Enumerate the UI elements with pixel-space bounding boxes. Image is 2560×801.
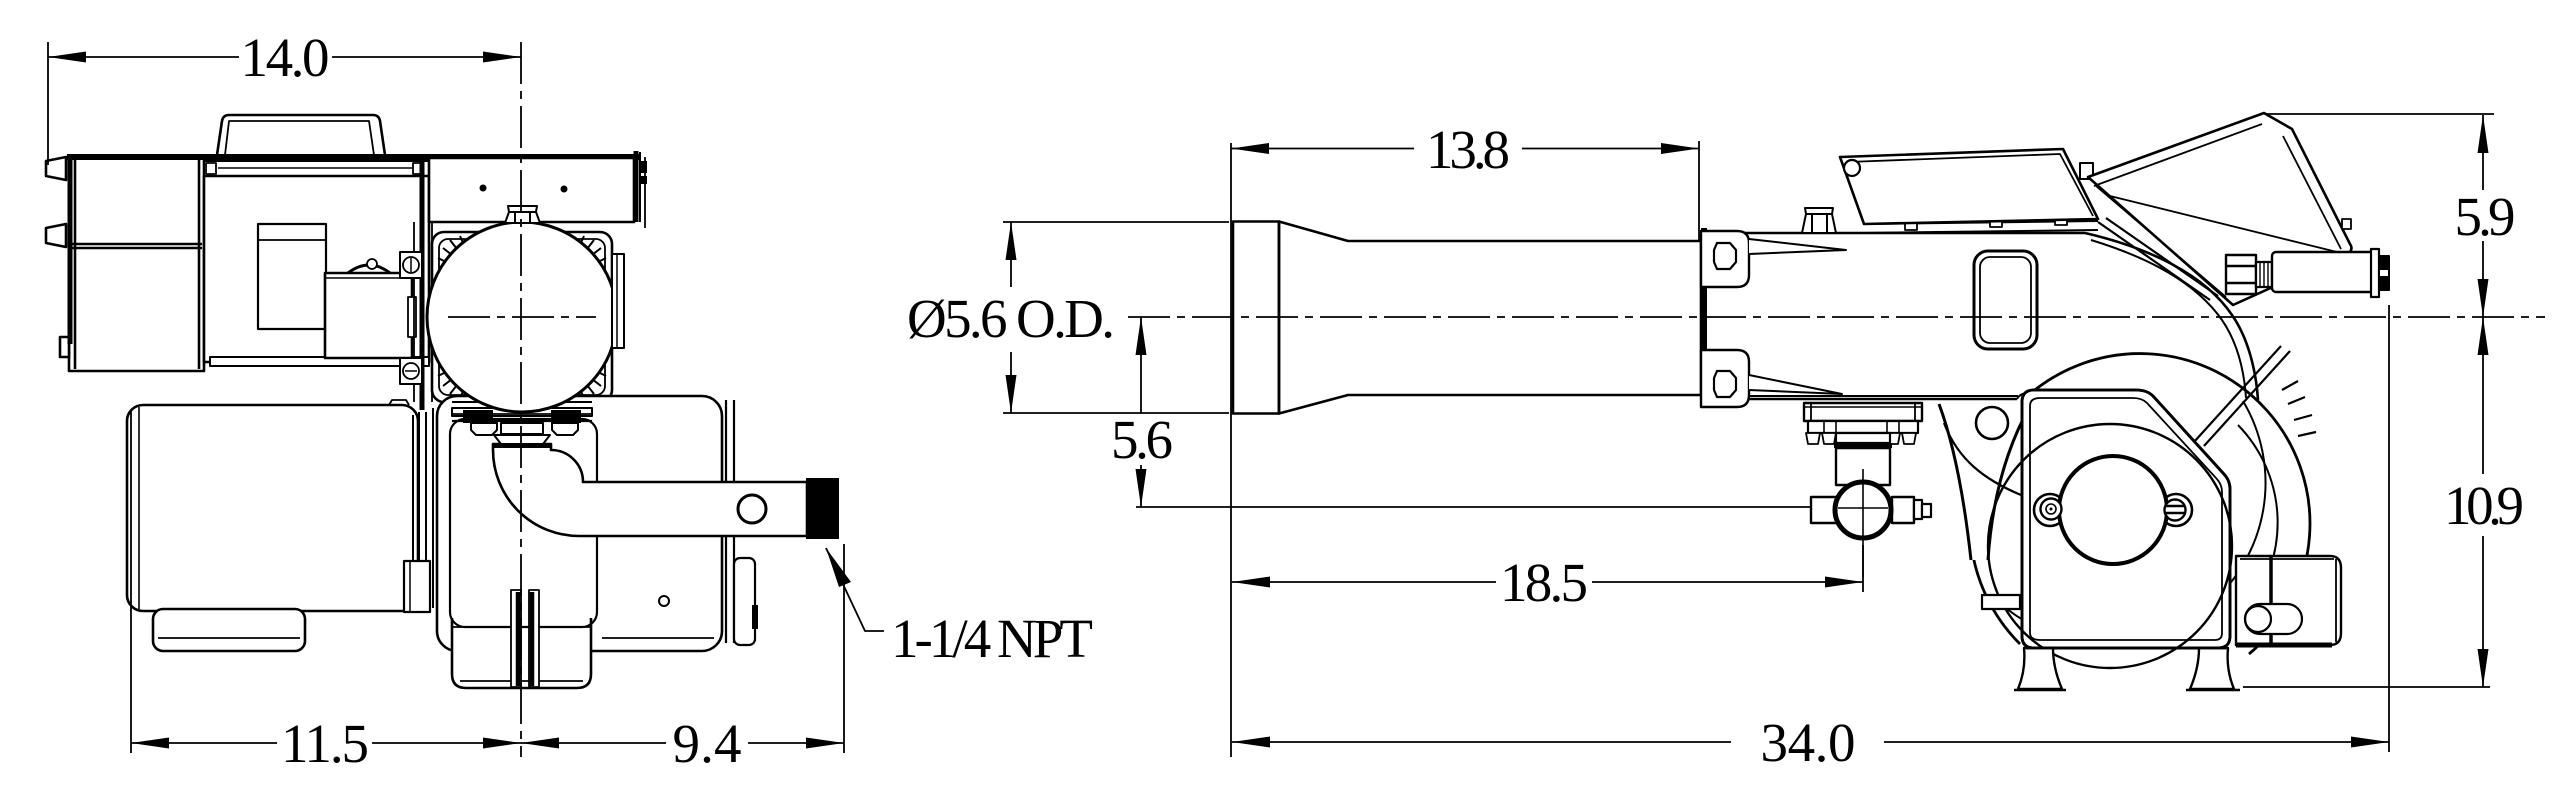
middle blower box body — [204, 176, 429, 362]
junction box — [429, 158, 634, 222]
flange heavy plate — [463, 410, 493, 423]
dim 14.0 line — [48, 56, 239, 58]
svg-text:18.5: 18.5 — [1500, 552, 1588, 613]
pump bottom cap — [452, 618, 591, 688]
dim 14.0 extension left — [47, 42, 49, 165]
upper gusset sliver — [1749, 239, 1846, 254]
kidney cover ears — [2034, 494, 2066, 526]
sight glass — [1974, 251, 2037, 349]
kidney screws — [2041, 499, 2062, 520]
dim 11.5 line — [131, 742, 277, 744]
igniter hex nut — [2226, 255, 2256, 294]
valve left block — [1811, 497, 1839, 523]
leader 1-1/4 NPT — [826, 548, 884, 631]
igniter threaded neck — [2256, 262, 2272, 287]
inlet cone outer curve — [1939, 404, 1971, 560]
svg-text:10.9: 10.9 — [2444, 475, 2524, 536]
vertical slot plates at centerline — [511, 590, 521, 687]
flange plate under circle — [452, 408, 592, 416]
gas manifold plate 2 — [1808, 421, 1918, 433]
corner serrations top-left — [438, 236, 469, 268]
solenoid dome — [348, 265, 390, 273]
scroll feet — [2018, 648, 2062, 689]
air box heavy bottom — [2236, 643, 2332, 648]
top cap trapezoid — [217, 115, 385, 155]
blower inlet circle — [427, 222, 617, 412]
dim 18.5 line — [1232, 581, 1496, 583]
lower tab hex bolt — [1714, 371, 1736, 397]
pentagon face plate — [2022, 390, 2230, 648]
brace diagonals — [2098, 222, 2210, 300]
svg-text:13.8: 13.8 — [1426, 119, 1510, 180]
dim 13.8 line — [1231, 148, 1414, 150]
feet base lines — [2014, 689, 2066, 691]
left control box — [69, 157, 204, 371]
igniter end cap — [2371, 249, 2379, 297]
dim 34.0 line — [1232, 741, 1731, 743]
cover hinge hole — [1844, 160, 1860, 176]
inner window — [258, 224, 326, 329]
horizontal centerline — [448, 316, 596, 318]
dim 5.6 extension line to valve — [1136, 506, 1811, 508]
left box small side tab — [60, 337, 69, 357]
scroll seam arc — [2001, 401, 2266, 643]
tilted transformer box — [2088, 113, 2352, 305]
blast tube taper and barrel — [1279, 222, 1701, 414]
dim 9.4 extension right — [843, 544, 845, 753]
left mounting tab upper — [46, 157, 66, 180]
flat cover box tilted — [1840, 149, 2098, 224]
flange nut left — [471, 423, 497, 435]
pipe hole circle — [738, 495, 766, 523]
top rail under cover — [1864, 221, 2098, 224]
right bracket plate — [612, 254, 624, 348]
body bottom edges — [1707, 395, 2018, 397]
scroll inner arc — [2238, 425, 2278, 610]
scroll clamp ticks — [2282, 381, 2316, 436]
svg-text:1-1/4 NPT: 1-1/4 NPT — [891, 608, 1093, 669]
rail clips — [1905, 222, 1917, 230]
igniter tip — [2379, 256, 2389, 290]
dim 9.4 line — [521, 742, 666, 744]
mounting plate upper tab — [1701, 231, 1749, 287]
small dark hinge — [752, 605, 758, 629]
manifold nuts — [1806, 433, 1820, 444]
vertical centerline — [520, 42, 522, 757]
kidney cover — [2059, 456, 2167, 564]
dim Ø5.6 bottom extension — [1003, 412, 1229, 414]
dim 13.8 extension right — [1698, 141, 1700, 240]
inlet web white cover — [1939, 399, 2021, 560]
pump inner bottom line — [602, 637, 714, 639]
lower brace diagonals — [2204, 351, 2290, 446]
mounting plate lower tab — [1701, 350, 1749, 407]
gas valve body circle — [1835, 482, 1891, 538]
inlet cone inner curve — [1988, 406, 2030, 560]
dim 13.8 extension left — [1230, 143, 1232, 757]
pentagon bottom edge re-stroke — [2026, 647, 2226, 650]
svg-text:5.6: 5.6 — [1111, 409, 1173, 470]
svg-text:Ø5.6 O.D.: Ø5.6 O.D. — [907, 288, 1115, 349]
junction box right heavy edge — [634, 151, 639, 222]
adapter trapezoid — [494, 435, 550, 444]
dim 5.9 top extension — [2266, 113, 2494, 115]
igniter cylinder — [2272, 252, 2374, 292]
motor body — [127, 405, 418, 611]
svg-text:9.4: 9.4 — [673, 713, 742, 774]
left clamp bracket upper — [400, 252, 422, 278]
left mounting tab lower — [46, 224, 66, 247]
drum circle on face plate — [1988, 424, 2232, 668]
left clamp bracket lower — [400, 358, 422, 384]
fan scroll square — [432, 232, 612, 402]
vertical channel heavy line — [420, 158, 425, 410]
corner serrations top-right — [575, 236, 606, 268]
pentagon border re-stroke — [2022, 390, 2230, 648]
dim 5.6 vertical line — [1140, 317, 1142, 413]
dim 10.9 vertical line — [2482, 317, 2484, 474]
inlet gusset hole — [1976, 407, 2008, 439]
dim 34.0 extension right — [2388, 305, 2390, 752]
dim Ø5.6 top extension — [1003, 221, 1229, 223]
gas pipe vertical — [1836, 448, 1890, 485]
connector box on motor — [404, 561, 430, 612]
inlet web lower edge — [1944, 423, 2021, 495]
valve centerline cross — [1862, 469, 1864, 577]
solenoid box — [325, 273, 412, 358]
junction box screw dots — [480, 185, 487, 192]
svg-text:34.0: 34.0 — [1761, 712, 1856, 773]
blast tube cone end — [1233, 222, 1279, 414]
top hex bolt on circle — [505, 206, 540, 223]
pump bolt dot — [659, 596, 669, 606]
lower gusset sliver — [1749, 375, 1842, 394]
gas pipe flange — [1836, 433, 1890, 443]
scroll left tab — [1982, 595, 2020, 609]
motor foot — [153, 609, 305, 651]
pump front panel — [450, 419, 597, 627]
valve nipple — [1914, 500, 1922, 519]
body top bolt — [1802, 208, 1836, 233]
cover right tab — [2080, 163, 2093, 179]
scroll-body transition curves — [2085, 233, 2258, 400]
flange nut right — [552, 423, 578, 435]
upper tab hex bolt — [1714, 243, 1736, 269]
dim 18.5 extension at valve — [1862, 545, 1864, 592]
svg-text:5.9: 5.9 — [2455, 186, 2516, 247]
middle box bottom lip — [210, 357, 429, 366]
body white fill — [1703, 233, 2021, 399]
bracket plate right of pump — [734, 558, 755, 645]
middle blower box top rail — [204, 161, 429, 176]
flange center block — [501, 423, 543, 434]
vertical support bar right — [725, 400, 727, 643]
heavy top bar — [67, 154, 640, 160]
body corner joint to scroll — [2017, 394, 2040, 400]
dim 10.9 bottom extension — [2243, 686, 2490, 688]
left heavy vertical edge — [68, 155, 73, 344]
dim 5.9 vertical line — [2482, 115, 2484, 190]
air box slot — [2245, 604, 2302, 634]
motor-pump adapter plates — [412, 415, 414, 600]
inlet cone white cover — [1932, 404, 1971, 560]
horizontal centerline — [1128, 316, 2545, 318]
black NPT nozzle — [806, 478, 839, 539]
dim 11.5 extension left — [130, 410, 132, 753]
valve right block — [1892, 497, 1914, 523]
body top edge — [1707, 232, 2085, 235]
fan scroll outer circle — [1970, 354, 2310, 654]
dim Ø5.6 vertical line — [1010, 222, 1012, 287]
elbow and horizontal pipe — [493, 444, 807, 536]
air inlet box — [2236, 556, 2341, 645]
corner serrations bottom-left — [438, 366, 469, 398]
svg-text:14.0: 14.0 — [241, 27, 330, 88]
mounting plate heavy line — [1701, 228, 1707, 407]
gas manifold plate 1 — [1804, 403, 1922, 421]
corner serrations bottom-right — [575, 366, 606, 398]
pump housing outer — [437, 396, 722, 651]
svg-text:11.5: 11.5 — [281, 713, 369, 774]
